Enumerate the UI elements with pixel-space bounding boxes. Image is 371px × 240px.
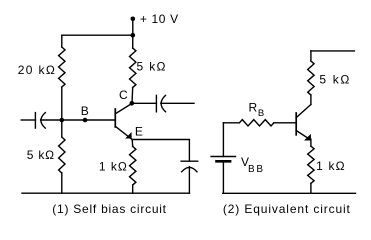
resistor 5 kΩ lower-left bbox=[59, 137, 65, 173]
capacitor C3 bypass curved plate bbox=[182, 167, 197, 171]
capacitor C2 output flat plate bbox=[155, 95, 157, 111]
svg-text:BB: BB bbox=[248, 164, 263, 175]
svg-text:+ 10 V: + 10 V bbox=[140, 12, 178, 26]
capacitor C1 input curved plate bbox=[41, 113, 45, 129]
resistor RB bbox=[239, 120, 274, 126]
capacitor C2 output curved plate bbox=[161, 95, 165, 111]
svg-text:5 kΩ: 5 kΩ bbox=[319, 73, 349, 87]
wire bypass cap to rail bbox=[188, 167, 190, 194]
transistor Q1 emitter lead bbox=[115, 126, 132, 139]
svg-text:5 kΩ: 5 kΩ bbox=[27, 148, 54, 162]
resistor 5 kΩ right bbox=[308, 61, 314, 95]
wire supply horizontal bbox=[62, 34, 133, 36]
svg-text:(2) Equivalent circuit: (2) Equivalent circuit bbox=[223, 202, 351, 216]
resistor 1 kΩ right bbox=[308, 146, 314, 183]
transistor Q2 base bar bbox=[295, 113, 297, 135]
svg-text:(1) Self bias circuit: (1) Self bias circuit bbox=[52, 202, 166, 216]
svg-text:B: B bbox=[258, 108, 264, 119]
svg-text:1 kΩ: 1 kΩ bbox=[316, 159, 345, 173]
node supply junction dot bbox=[131, 33, 136, 38]
resistor 20 kΩ bbox=[59, 47, 65, 87]
wire C node to output cap bbox=[132, 102, 157, 104]
transistor Q1 collector lead bbox=[115, 104, 132, 114]
node +10V terminal dot bbox=[131, 17, 136, 22]
wire supply vertical bbox=[132, 19, 134, 35]
node divider junction bbox=[60, 118, 65, 123]
wire battery top bbox=[222, 123, 224, 157]
ground rail right bbox=[223, 192, 356, 194]
wire to R1 top bbox=[61, 35, 63, 47]
node C dot bbox=[130, 101, 135, 106]
wire R1 bottom to base node bbox=[61, 87, 63, 137]
svg-text:E: E bbox=[135, 124, 143, 138]
node B dot bbox=[83, 118, 88, 123]
resistor 1 kΩ emitter bbox=[130, 146, 136, 185]
svg-text:B: B bbox=[81, 104, 89, 118]
svg-text:R: R bbox=[249, 101, 258, 115]
wire battery bottom bbox=[222, 163, 224, 194]
battery VBB long plate bbox=[211, 156, 235, 158]
transistor Q1 emitter arrowhead bbox=[125, 132, 131, 139]
wire R3 bottom to C node bbox=[131, 88, 134, 104]
svg-text:1 kΩ: 1 kΩ bbox=[99, 160, 127, 174]
transistor Q1 base bar bbox=[114, 109, 116, 127]
svg-text:5 kΩ: 5 kΩ bbox=[137, 60, 166, 74]
wire R4 bottom to rail bbox=[132, 185, 134, 193]
wire R2 bottom to ground rail bbox=[61, 173, 63, 193]
transistor Q2 collector lead bbox=[296, 105, 311, 118]
wire RB to base bbox=[274, 122, 296, 124]
wire supply to R5 top bbox=[310, 51, 312, 61]
wire emitter node down bbox=[131, 140, 134, 147]
capacitor C1 input flat plate bbox=[34, 113, 36, 129]
wire emitter to bypass cap bbox=[132, 140, 189, 161]
svg-text:20 kΩ: 20 kΩ bbox=[18, 63, 55, 77]
wire battery to RB bbox=[223, 122, 239, 124]
svg-text:C: C bbox=[119, 88, 128, 102]
battery VBB short plate bbox=[217, 160, 231, 163]
wire R5 to collector bbox=[310, 95, 312, 105]
wire R6 to rail bbox=[310, 183, 312, 193]
wire supply to R3 top bbox=[132, 35, 134, 48]
transistor Q2 emitter lead bbox=[296, 131, 310, 140]
ground rail left bbox=[22, 192, 189, 194]
wire C1 to base bbox=[41, 119, 116, 121]
wire emitter down to R6 bbox=[310, 139, 312, 146]
wire output lead bbox=[161, 102, 194, 104]
resistor 5 kΩ collector bbox=[130, 48, 136, 88]
capacitor C3 bypass flat plate bbox=[181, 160, 198, 162]
wire top right supply bbox=[311, 50, 355, 52]
transistor Q2 emitter arrowhead bbox=[304, 134, 311, 141]
wire input lead bbox=[21, 119, 35, 121]
